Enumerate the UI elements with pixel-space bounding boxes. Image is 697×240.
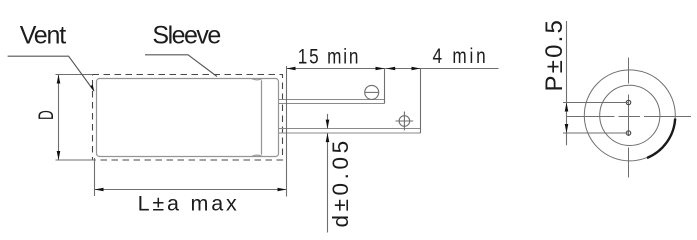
svg-text:D: D bbox=[34, 110, 58, 120]
svg-text:4 min: 4 min bbox=[432, 44, 488, 68]
svg-text:L±a max: L±a max bbox=[138, 192, 240, 216]
svg-text:d±0.05: d±0.05 bbox=[328, 137, 353, 227]
svg-text:15 min: 15 min bbox=[298, 45, 361, 69]
svg-text:Vent: Vent bbox=[20, 21, 67, 49]
svg-text:Sleeve: Sleeve bbox=[152, 21, 220, 49]
svg-text:P±0.5: P±0.5 bbox=[541, 18, 568, 92]
